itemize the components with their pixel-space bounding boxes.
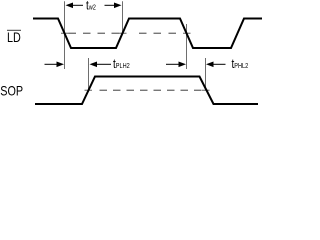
svg-text:SOP: SOP bbox=[0, 84, 23, 99]
svg-text:LD: LD bbox=[7, 30, 21, 45]
